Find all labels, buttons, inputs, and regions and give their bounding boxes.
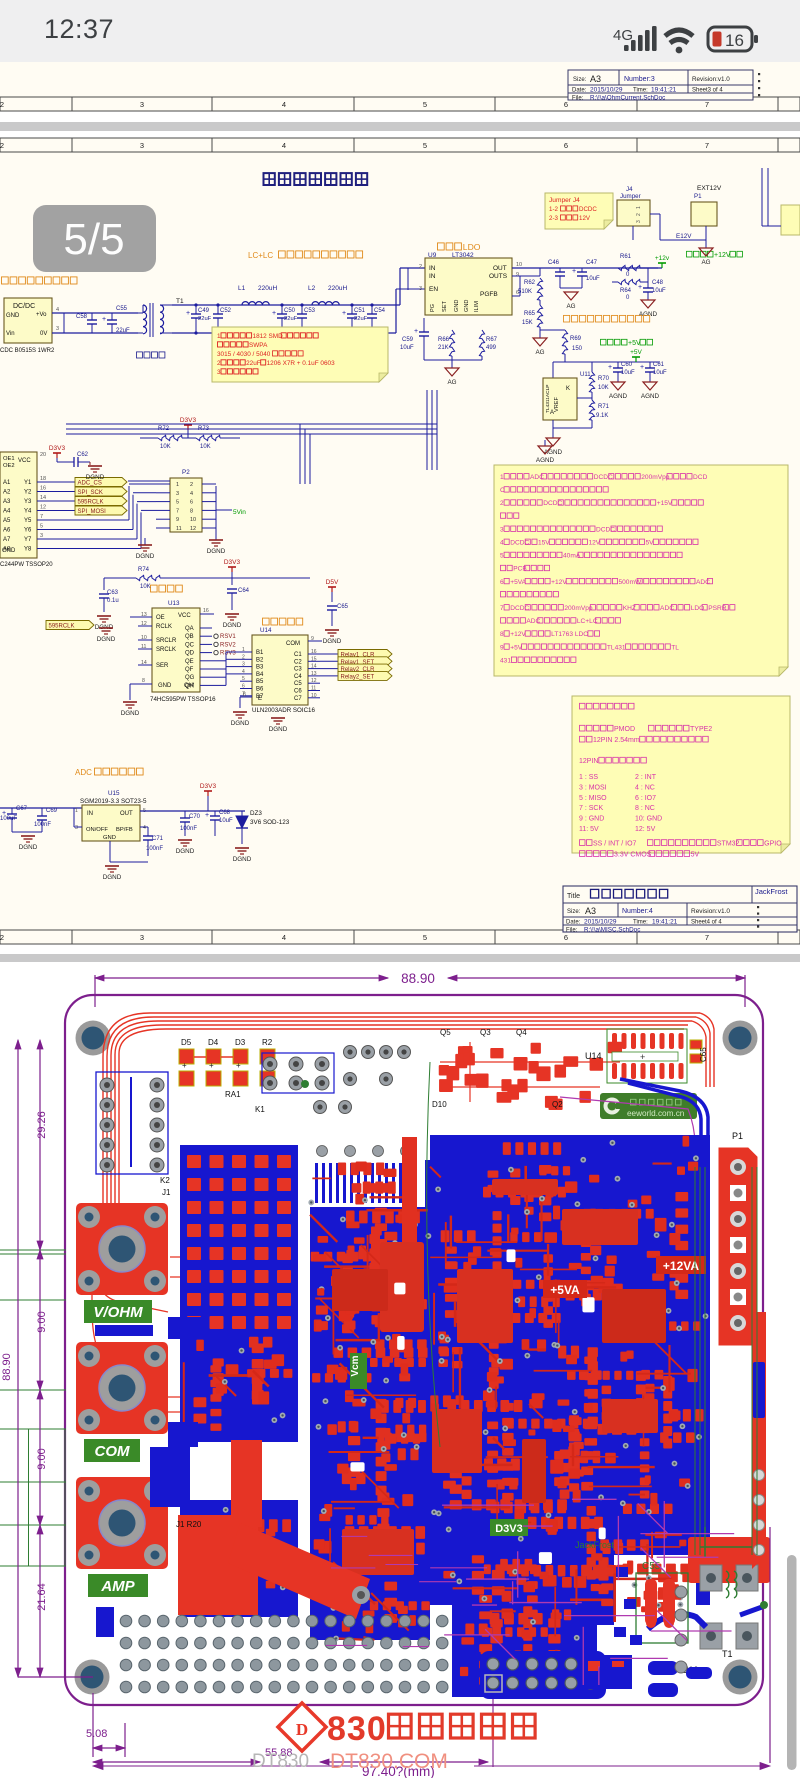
svg-text:16: 16 bbox=[40, 486, 46, 492]
svg-text:J4: J4 bbox=[626, 186, 633, 193]
svg-text:22uF: 22uF bbox=[198, 316, 212, 322]
svg-text:4: 4 bbox=[190, 491, 193, 497]
svg-text:AGND: AGND bbox=[609, 393, 628, 400]
svg-text:5: 5 bbox=[40, 524, 43, 530]
svg-text:9.1K: 9.1K bbox=[596, 413, 608, 419]
svg-text:12PIN: 12PIN bbox=[579, 758, 598, 765]
svg-text:3.3V CMOS: 3.3V CMOS bbox=[614, 851, 652, 858]
svg-text:C49: C49 bbox=[198, 308, 210, 314]
svg-text:3: 3 bbox=[40, 533, 43, 539]
svg-text:QH': QH' bbox=[184, 683, 194, 689]
svg-text:B1: B1 bbox=[256, 650, 264, 656]
svg-text:B2: B2 bbox=[256, 657, 264, 663]
svg-text:22uF: 22uF bbox=[354, 316, 368, 322]
svg-text:QA: QA bbox=[185, 626, 194, 632]
svg-text:A2: A2 bbox=[3, 490, 11, 496]
svg-text:AG: AG bbox=[535, 349, 544, 356]
svg-text:D10: D10 bbox=[432, 1100, 447, 1109]
svg-text:6: 6 bbox=[190, 500, 193, 506]
svg-text:12V: 12V bbox=[579, 215, 591, 222]
svg-text:22uF: 22uF bbox=[284, 316, 298, 322]
svg-text:10: 10 bbox=[141, 635, 147, 641]
svg-text:7 : SCK: 7 : SCK bbox=[579, 805, 603, 812]
svg-text:C6: C6 bbox=[294, 689, 302, 695]
svg-text:C62: C62 bbox=[77, 452, 89, 458]
svg-text:PG: PG bbox=[430, 304, 436, 312]
svg-text:4: 4 bbox=[242, 669, 245, 675]
svg-text:12V: 12V bbox=[588, 540, 600, 547]
svg-text:QG: QG bbox=[185, 675, 195, 681]
svg-text:QD: QD bbox=[185, 651, 195, 657]
svg-text:C65: C65 bbox=[699, 1047, 708, 1062]
svg-text:eeworld.com.cn: eeworld.com.cn bbox=[627, 1109, 685, 1118]
svg-text:OE1: OE1 bbox=[3, 456, 15, 462]
svg-text:6: 6 bbox=[500, 579, 504, 586]
svg-text:JackFrost: JackFrost bbox=[755, 887, 788, 896]
svg-text:5: 5 bbox=[423, 933, 427, 942]
svg-text:2: 2 bbox=[0, 933, 4, 942]
svg-text:A7: A7 bbox=[3, 537, 11, 543]
svg-text:R70: R70 bbox=[598, 376, 610, 382]
svg-text:+: + bbox=[182, 1061, 187, 1070]
svg-text:16: 16 bbox=[203, 608, 209, 614]
svg-text:DGND: DGND bbox=[121, 710, 140, 717]
svg-text:VCC: VCC bbox=[18, 458, 31, 464]
svg-text:A1: A1 bbox=[3, 480, 11, 486]
svg-text:+: + bbox=[205, 812, 209, 819]
svg-text:9: 9 bbox=[311, 636, 314, 642]
svg-text:DGND: DGND bbox=[86, 474, 105, 481]
svg-text:100nF: 100nF bbox=[146, 846, 163, 852]
svg-text:15V: 15V bbox=[538, 540, 550, 547]
svg-text:10uF: 10uF bbox=[219, 818, 233, 824]
svg-text:D4: D4 bbox=[208, 1038, 219, 1047]
svg-text:A3: A3 bbox=[590, 74, 601, 84]
svg-text:6: 6 bbox=[242, 684, 245, 690]
svg-text:C55: C55 bbox=[642, 1561, 661, 1572]
svg-text:LDO: LDO bbox=[463, 242, 481, 252]
svg-text:12: 12 bbox=[141, 621, 147, 627]
svg-text:B5: B5 bbox=[256, 679, 264, 685]
svg-text:21.64: 21.64 bbox=[36, 1583, 48, 1611]
svg-text:U14: U14 bbox=[585, 1051, 602, 1061]
svg-text:7: 7 bbox=[40, 514, 43, 520]
svg-text:SPI_MOSI: SPI_MOSI bbox=[78, 509, 107, 515]
svg-text:10K: 10K bbox=[140, 584, 151, 590]
svg-text:L2: L2 bbox=[308, 285, 316, 292]
svg-text:B3: B3 bbox=[256, 665, 264, 671]
svg-text:J1: J1 bbox=[162, 1188, 171, 1197]
svg-text:GND: GND bbox=[2, 548, 16, 554]
svg-text:8: 8 bbox=[500, 631, 504, 638]
svg-text:18: 18 bbox=[40, 476, 46, 482]
svg-text:2: 2 bbox=[0, 141, 4, 150]
svg-text:100uF: 100uF bbox=[0, 816, 17, 822]
svg-text:14: 14 bbox=[311, 664, 317, 670]
svg-text:T1: T1 bbox=[722, 1649, 733, 1659]
svg-text:R66: R66 bbox=[438, 337, 450, 343]
svg-text:QB: QB bbox=[185, 634, 194, 640]
svg-text:C63: C63 bbox=[107, 590, 119, 596]
svg-text:PMOD: PMOD bbox=[614, 726, 635, 733]
svg-text:GND: GND bbox=[464, 300, 470, 312]
svg-text:4: 4 bbox=[282, 141, 286, 150]
svg-text:P1: P1 bbox=[732, 1131, 743, 1141]
svg-text:ADC: ADC bbox=[696, 579, 710, 586]
svg-text:100nF: 100nF bbox=[180, 826, 197, 832]
svg-text:U13: U13 bbox=[168, 600, 180, 607]
svg-text:1: 1 bbox=[242, 647, 245, 653]
svg-text:510K: 510K bbox=[518, 289, 532, 295]
svg-text:RSV1: RSV1 bbox=[220, 634, 236, 640]
svg-text:C64: C64 bbox=[238, 588, 250, 594]
svg-text:88.90: 88.90 bbox=[1, 1353, 13, 1381]
svg-text:D3V3: D3V3 bbox=[200, 783, 217, 790]
svg-text:Date:: Date: bbox=[566, 920, 581, 926]
svg-text:ADC: ADC bbox=[660, 605, 674, 612]
svg-text:5/5: 5/5 bbox=[63, 215, 124, 264]
svg-text:5V: 5V bbox=[646, 540, 655, 547]
svg-text:OE2: OE2 bbox=[3, 463, 15, 469]
svg-text:3: 3 bbox=[500, 526, 504, 533]
svg-text:K: K bbox=[566, 386, 570, 392]
svg-text:R69: R69 bbox=[570, 336, 582, 342]
svg-text:OUTS: OUTS bbox=[489, 273, 508, 280]
svg-text:22uF: 22uF bbox=[246, 360, 261, 367]
svg-text:R65: R65 bbox=[524, 311, 536, 317]
svg-text:Size:: Size: bbox=[567, 909, 581, 915]
svg-text:3: 3 bbox=[217, 369, 221, 376]
svg-text:C47: C47 bbox=[586, 260, 598, 266]
svg-text:C46: C46 bbox=[548, 260, 560, 266]
svg-text:DGND: DGND bbox=[207, 548, 226, 555]
svg-text:C60: C60 bbox=[621, 362, 633, 368]
svg-text:5: 5 bbox=[423, 100, 427, 109]
svg-text:C55: C55 bbox=[116, 306, 128, 312]
svg-text:A3: A3 bbox=[585, 906, 596, 916]
svg-text:9 : GND: 9 : GND bbox=[579, 816, 604, 823]
svg-text:DCDC: DCDC bbox=[510, 540, 529, 547]
svg-text:R2: R2 bbox=[262, 1038, 273, 1047]
svg-text:File:: File: bbox=[572, 96, 584, 102]
svg-text:21K: 21K bbox=[438, 345, 449, 351]
svg-text:C61: C61 bbox=[653, 362, 665, 368]
svg-text:10: 10 bbox=[190, 517, 196, 523]
svg-text:SER: SER bbox=[156, 663, 169, 669]
svg-text:DZ3: DZ3 bbox=[250, 810, 262, 817]
svg-text:GPIO: GPIO bbox=[764, 840, 782, 847]
svg-text:2: 2 bbox=[0, 100, 4, 109]
svg-text:Q5: Q5 bbox=[440, 1028, 451, 1037]
svg-text:12: 5V: 12: 5V bbox=[635, 826, 656, 833]
svg-text:DGND: DGND bbox=[233, 856, 252, 863]
svg-text:14: 14 bbox=[40, 495, 46, 501]
svg-text:9: 9 bbox=[500, 644, 504, 651]
svg-text:3015 / 4030 / 5040: 3015 / 4030 / 5040 bbox=[217, 351, 271, 358]
svg-text:DCDC: DCDC bbox=[543, 500, 562, 507]
svg-text:4 : NC: 4 : NC bbox=[635, 784, 655, 791]
svg-text:Y4: Y4 bbox=[24, 509, 32, 515]
svg-text:4: 4 bbox=[282, 100, 286, 109]
svg-text:3: 3 bbox=[176, 491, 179, 497]
svg-text:A3: A3 bbox=[3, 499, 11, 505]
svg-text:Time:: Time: bbox=[633, 920, 648, 926]
svg-text:AG: AG bbox=[701, 259, 710, 266]
svg-text:ILIM: ILIM bbox=[474, 301, 480, 312]
svg-text:15K: 15K bbox=[522, 320, 533, 326]
svg-text:TYPE2: TYPE2 bbox=[690, 726, 712, 733]
svg-text:15: 15 bbox=[311, 656, 317, 662]
svg-text:+12V: +12V bbox=[551, 579, 567, 586]
svg-text:13: 13 bbox=[311, 671, 317, 677]
svg-text:+12VA: +12VA bbox=[663, 1259, 699, 1273]
svg-text:22uF: 22uF bbox=[116, 328, 130, 334]
svg-text:SET: SET bbox=[442, 301, 448, 312]
svg-text:200mVpp: 200mVpp bbox=[641, 474, 670, 481]
svg-text:DGND: DGND bbox=[103, 874, 122, 881]
svg-text:5V: 5V bbox=[691, 851, 700, 858]
svg-text:DGND: DGND bbox=[231, 720, 250, 727]
svg-text:DGND: DGND bbox=[19, 844, 38, 851]
svg-text:10uF: 10uF bbox=[586, 276, 600, 282]
svg-text:AGND: AGND bbox=[641, 393, 660, 400]
svg-text:+Vo: +Vo bbox=[36, 312, 47, 318]
svg-text:3: 3 bbox=[75, 825, 78, 831]
svg-text:Y2: Y2 bbox=[24, 490, 32, 496]
svg-text:1: 1 bbox=[500, 474, 504, 481]
svg-text:B6: B6 bbox=[256, 687, 264, 693]
svg-text:COM: COM bbox=[286, 641, 300, 647]
svg-text:5 : MISO: 5 : MISO bbox=[579, 795, 607, 802]
svg-text:+: + bbox=[186, 310, 190, 317]
svg-text:+: + bbox=[102, 316, 106, 323]
svg-text:+5VA: +5VA bbox=[550, 1283, 580, 1297]
svg-text:Vcm: Vcm bbox=[350, 1355, 361, 1376]
svg-text:D5V: D5V bbox=[326, 579, 339, 586]
svg-text:14: 14 bbox=[141, 660, 147, 666]
svg-text:2: 2 bbox=[636, 213, 642, 216]
svg-text:Revision:v1.0: Revision:v1.0 bbox=[691, 908, 730, 915]
svg-text:PGFB: PGFB bbox=[480, 291, 498, 298]
svg-text:2: 2 bbox=[217, 360, 221, 367]
svg-text:DGND: DGND bbox=[223, 622, 242, 629]
svg-text:EXT12V: EXT12V bbox=[697, 185, 722, 192]
svg-text:5: 5 bbox=[176, 500, 179, 506]
svg-text:Size:: Size: bbox=[573, 77, 587, 83]
svg-text:C48: C48 bbox=[652, 280, 664, 286]
svg-text:OE: OE bbox=[156, 615, 165, 621]
svg-text:9.00: 9.00 bbox=[36, 1448, 48, 1469]
svg-text:QC: QC bbox=[185, 642, 195, 648]
svg-text:SWPA: SWPA bbox=[249, 342, 268, 349]
svg-text:10: 10 bbox=[311, 693, 317, 699]
svg-text:ADC_CS: ADC_CS bbox=[78, 481, 102, 487]
svg-text:+: + bbox=[638, 284, 642, 291]
svg-text:12: 12 bbox=[311, 678, 317, 684]
svg-text:DT830: DT830 bbox=[252, 1751, 309, 1772]
svg-text:7: 7 bbox=[176, 508, 179, 514]
svg-text:7: 7 bbox=[705, 141, 709, 150]
svg-text:U15: U15 bbox=[108, 790, 120, 797]
svg-text:150: 150 bbox=[572, 346, 583, 352]
svg-text:B4: B4 bbox=[256, 672, 264, 678]
svg-text:1-2: 1-2 bbox=[549, 206, 559, 213]
svg-text:Time:: Time: bbox=[633, 88, 648, 94]
svg-text:4G: 4G bbox=[613, 27, 633, 44]
svg-text:LC+LC: LC+LC bbox=[577, 618, 598, 625]
svg-text:K1: K1 bbox=[255, 1105, 265, 1114]
svg-text:+: + bbox=[572, 268, 576, 275]
svg-text:Y3: Y3 bbox=[24, 499, 32, 505]
svg-text:C7: C7 bbox=[294, 696, 302, 702]
svg-text:DGND: DGND bbox=[136, 553, 155, 560]
svg-text:EN: EN bbox=[429, 286, 438, 293]
svg-text:9: 9 bbox=[516, 272, 519, 278]
svg-text:5.08: 5.08 bbox=[86, 1728, 107, 1740]
svg-text:74HC595PW TSSOP16: 74HC595PW TSSOP16 bbox=[150, 696, 216, 703]
svg-text:DCDC: DCDC bbox=[579, 206, 597, 213]
svg-text:C1: C1 bbox=[294, 652, 302, 658]
svg-text:Y7: Y7 bbox=[24, 537, 32, 543]
svg-text:Number:3: Number:3 bbox=[624, 76, 655, 83]
svg-text:IN: IN bbox=[429, 265, 436, 272]
svg-text:COM: COM bbox=[95, 1443, 131, 1460]
svg-text:AG: AG bbox=[566, 303, 575, 310]
svg-text:Y6: Y6 bbox=[24, 528, 32, 534]
svg-text:88.90: 88.90 bbox=[401, 971, 435, 986]
svg-text:12PIN 2.54mm: 12PIN 2.54mm bbox=[593, 737, 640, 744]
svg-text:3: 3 bbox=[242, 662, 245, 668]
svg-text:4: 4 bbox=[143, 825, 146, 831]
svg-text:Number:4: Number:4 bbox=[622, 908, 653, 915]
svg-text:2015/10/29: 2015/10/29 bbox=[590, 87, 623, 94]
svg-text:E: E bbox=[258, 696, 262, 702]
svg-text:RA1: RA1 bbox=[225, 1090, 241, 1099]
svg-text:4: 4 bbox=[56, 307, 59, 313]
svg-text:C71: C71 bbox=[152, 836, 164, 842]
svg-text:+: + bbox=[209, 1061, 214, 1070]
svg-text:File:: File: bbox=[566, 928, 578, 934]
svg-text:DCDC: DCDC bbox=[510, 605, 529, 612]
svg-text:Vin: Vin bbox=[6, 331, 15, 337]
svg-text:+15V: +15V bbox=[657, 500, 673, 507]
svg-text:QF: QF bbox=[185, 667, 194, 673]
svg-text:+: + bbox=[272, 310, 276, 317]
svg-text:12: 12 bbox=[190, 526, 196, 532]
svg-text:100nF: 100nF bbox=[34, 822, 51, 828]
svg-text:3: 3 bbox=[636, 220, 642, 223]
svg-text:+12v: +12v bbox=[655, 255, 670, 262]
svg-text:LC+LC: LC+LC bbox=[248, 251, 273, 260]
svg-text:16: 16 bbox=[725, 31, 744, 50]
svg-text:C65: C65 bbox=[337, 604, 349, 610]
svg-text:TL: TL bbox=[671, 644, 679, 651]
svg-text:D3V3: D3V3 bbox=[49, 445, 66, 452]
svg-text:AMP: AMP bbox=[100, 1578, 135, 1595]
svg-text:8: 8 bbox=[142, 678, 145, 684]
svg-text:+: + bbox=[640, 1052, 645, 1062]
svg-text:GND: GND bbox=[158, 683, 172, 689]
svg-text:3: 3 bbox=[419, 286, 422, 292]
svg-text:2: 2 bbox=[419, 264, 422, 270]
svg-text:Sheet3 of 4: Sheet3 of 4 bbox=[692, 88, 723, 94]
svg-text:C52: C52 bbox=[220, 308, 232, 314]
svg-text:C54: C54 bbox=[374, 308, 386, 314]
svg-text:CDC B0515S 1WR2: CDC B0515S 1WR2 bbox=[0, 348, 55, 354]
svg-text:10uF: 10uF bbox=[652, 288, 666, 294]
svg-text:D3V3: D3V3 bbox=[180, 417, 197, 424]
svg-text:C53: C53 bbox=[304, 308, 316, 314]
svg-text:OUT: OUT bbox=[493, 265, 507, 272]
svg-text:C59: C59 bbox=[402, 337, 414, 343]
svg-text:20: 20 bbox=[40, 452, 46, 458]
svg-text:C244PW TSSOP20: C244PW TSSOP20 bbox=[0, 562, 53, 568]
svg-text:10uF: 10uF bbox=[400, 345, 414, 351]
svg-text:PCB: PCB bbox=[513, 566, 527, 573]
svg-text:C2: C2 bbox=[294, 659, 302, 665]
svg-text:+: + bbox=[608, 364, 612, 371]
svg-text:8: 8 bbox=[243, 692, 246, 698]
svg-text:R:\!\a\MISC.SchDoc: R:\!\a\MISC.SchDoc bbox=[584, 927, 640, 934]
svg-text:R64: R64 bbox=[620, 288, 632, 294]
svg-text:AG: AG bbox=[447, 379, 456, 386]
svg-text:6: 6 bbox=[564, 933, 568, 942]
svg-text:DGND: DGND bbox=[97, 636, 116, 643]
svg-text:2 : INT: 2 : INT bbox=[635, 774, 657, 781]
svg-text:Revision:v1.0: Revision:v1.0 bbox=[692, 76, 730, 83]
svg-text:JackFrost: JackFrost bbox=[575, 1540, 615, 1550]
svg-text:595RCLK: 595RCLK bbox=[49, 624, 75, 630]
svg-text:10uF: 10uF bbox=[621, 370, 635, 376]
svg-text:220uH: 220uH bbox=[258, 285, 277, 292]
svg-text:GND: GND bbox=[103, 835, 116, 841]
svg-text:Q2: Q2 bbox=[552, 1100, 563, 1109]
svg-text:J1 R20: J1 R20 bbox=[176, 1520, 202, 1529]
svg-text:C69: C69 bbox=[46, 808, 58, 814]
svg-text:3 : MOSI: 3 : MOSI bbox=[579, 784, 607, 791]
svg-text:GND: GND bbox=[454, 300, 460, 312]
svg-text:BP/FB: BP/FB bbox=[116, 827, 133, 833]
svg-text:29.26: 29.26 bbox=[36, 1111, 48, 1139]
svg-text:D5: D5 bbox=[181, 1038, 192, 1047]
svg-text:PSRR: PSRR bbox=[708, 605, 727, 612]
svg-text:DCDC: DCDC bbox=[596, 526, 615, 533]
svg-text:1: 1 bbox=[176, 482, 179, 488]
svg-text:RCLK: RCLK bbox=[156, 624, 172, 630]
svg-text:P1: P1 bbox=[694, 193, 702, 200]
svg-text:C4: C4 bbox=[294, 674, 302, 680]
svg-text:431: 431 bbox=[500, 657, 511, 664]
svg-text:A4: A4 bbox=[3, 509, 11, 515]
svg-text:1: 1 bbox=[217, 333, 221, 340]
svg-text:4: 4 bbox=[282, 933, 286, 942]
svg-text:C50: C50 bbox=[284, 308, 296, 314]
svg-text:830: 830 bbox=[327, 1710, 387, 1748]
svg-text:SRCLK: SRCLK bbox=[156, 647, 176, 653]
svg-text:2-3: 2-3 bbox=[549, 215, 559, 222]
svg-text:6 : IO7: 6 : IO7 bbox=[635, 795, 656, 802]
svg-text:V/OHM: V/OHM bbox=[93, 1304, 143, 1321]
svg-text:3: 3 bbox=[140, 100, 144, 109]
svg-text:11: 11 bbox=[141, 644, 146, 650]
svg-text:D3V3: D3V3 bbox=[495, 1523, 523, 1535]
svg-text:+: + bbox=[640, 364, 644, 371]
svg-text:AGND: AGND bbox=[536, 457, 555, 464]
svg-text:220uH: 220uH bbox=[328, 285, 347, 292]
svg-text:SRCLR: SRCLR bbox=[156, 638, 177, 644]
svg-text:ADC: ADC bbox=[526, 618, 540, 625]
svg-text:0.1u: 0.1u bbox=[107, 598, 119, 604]
